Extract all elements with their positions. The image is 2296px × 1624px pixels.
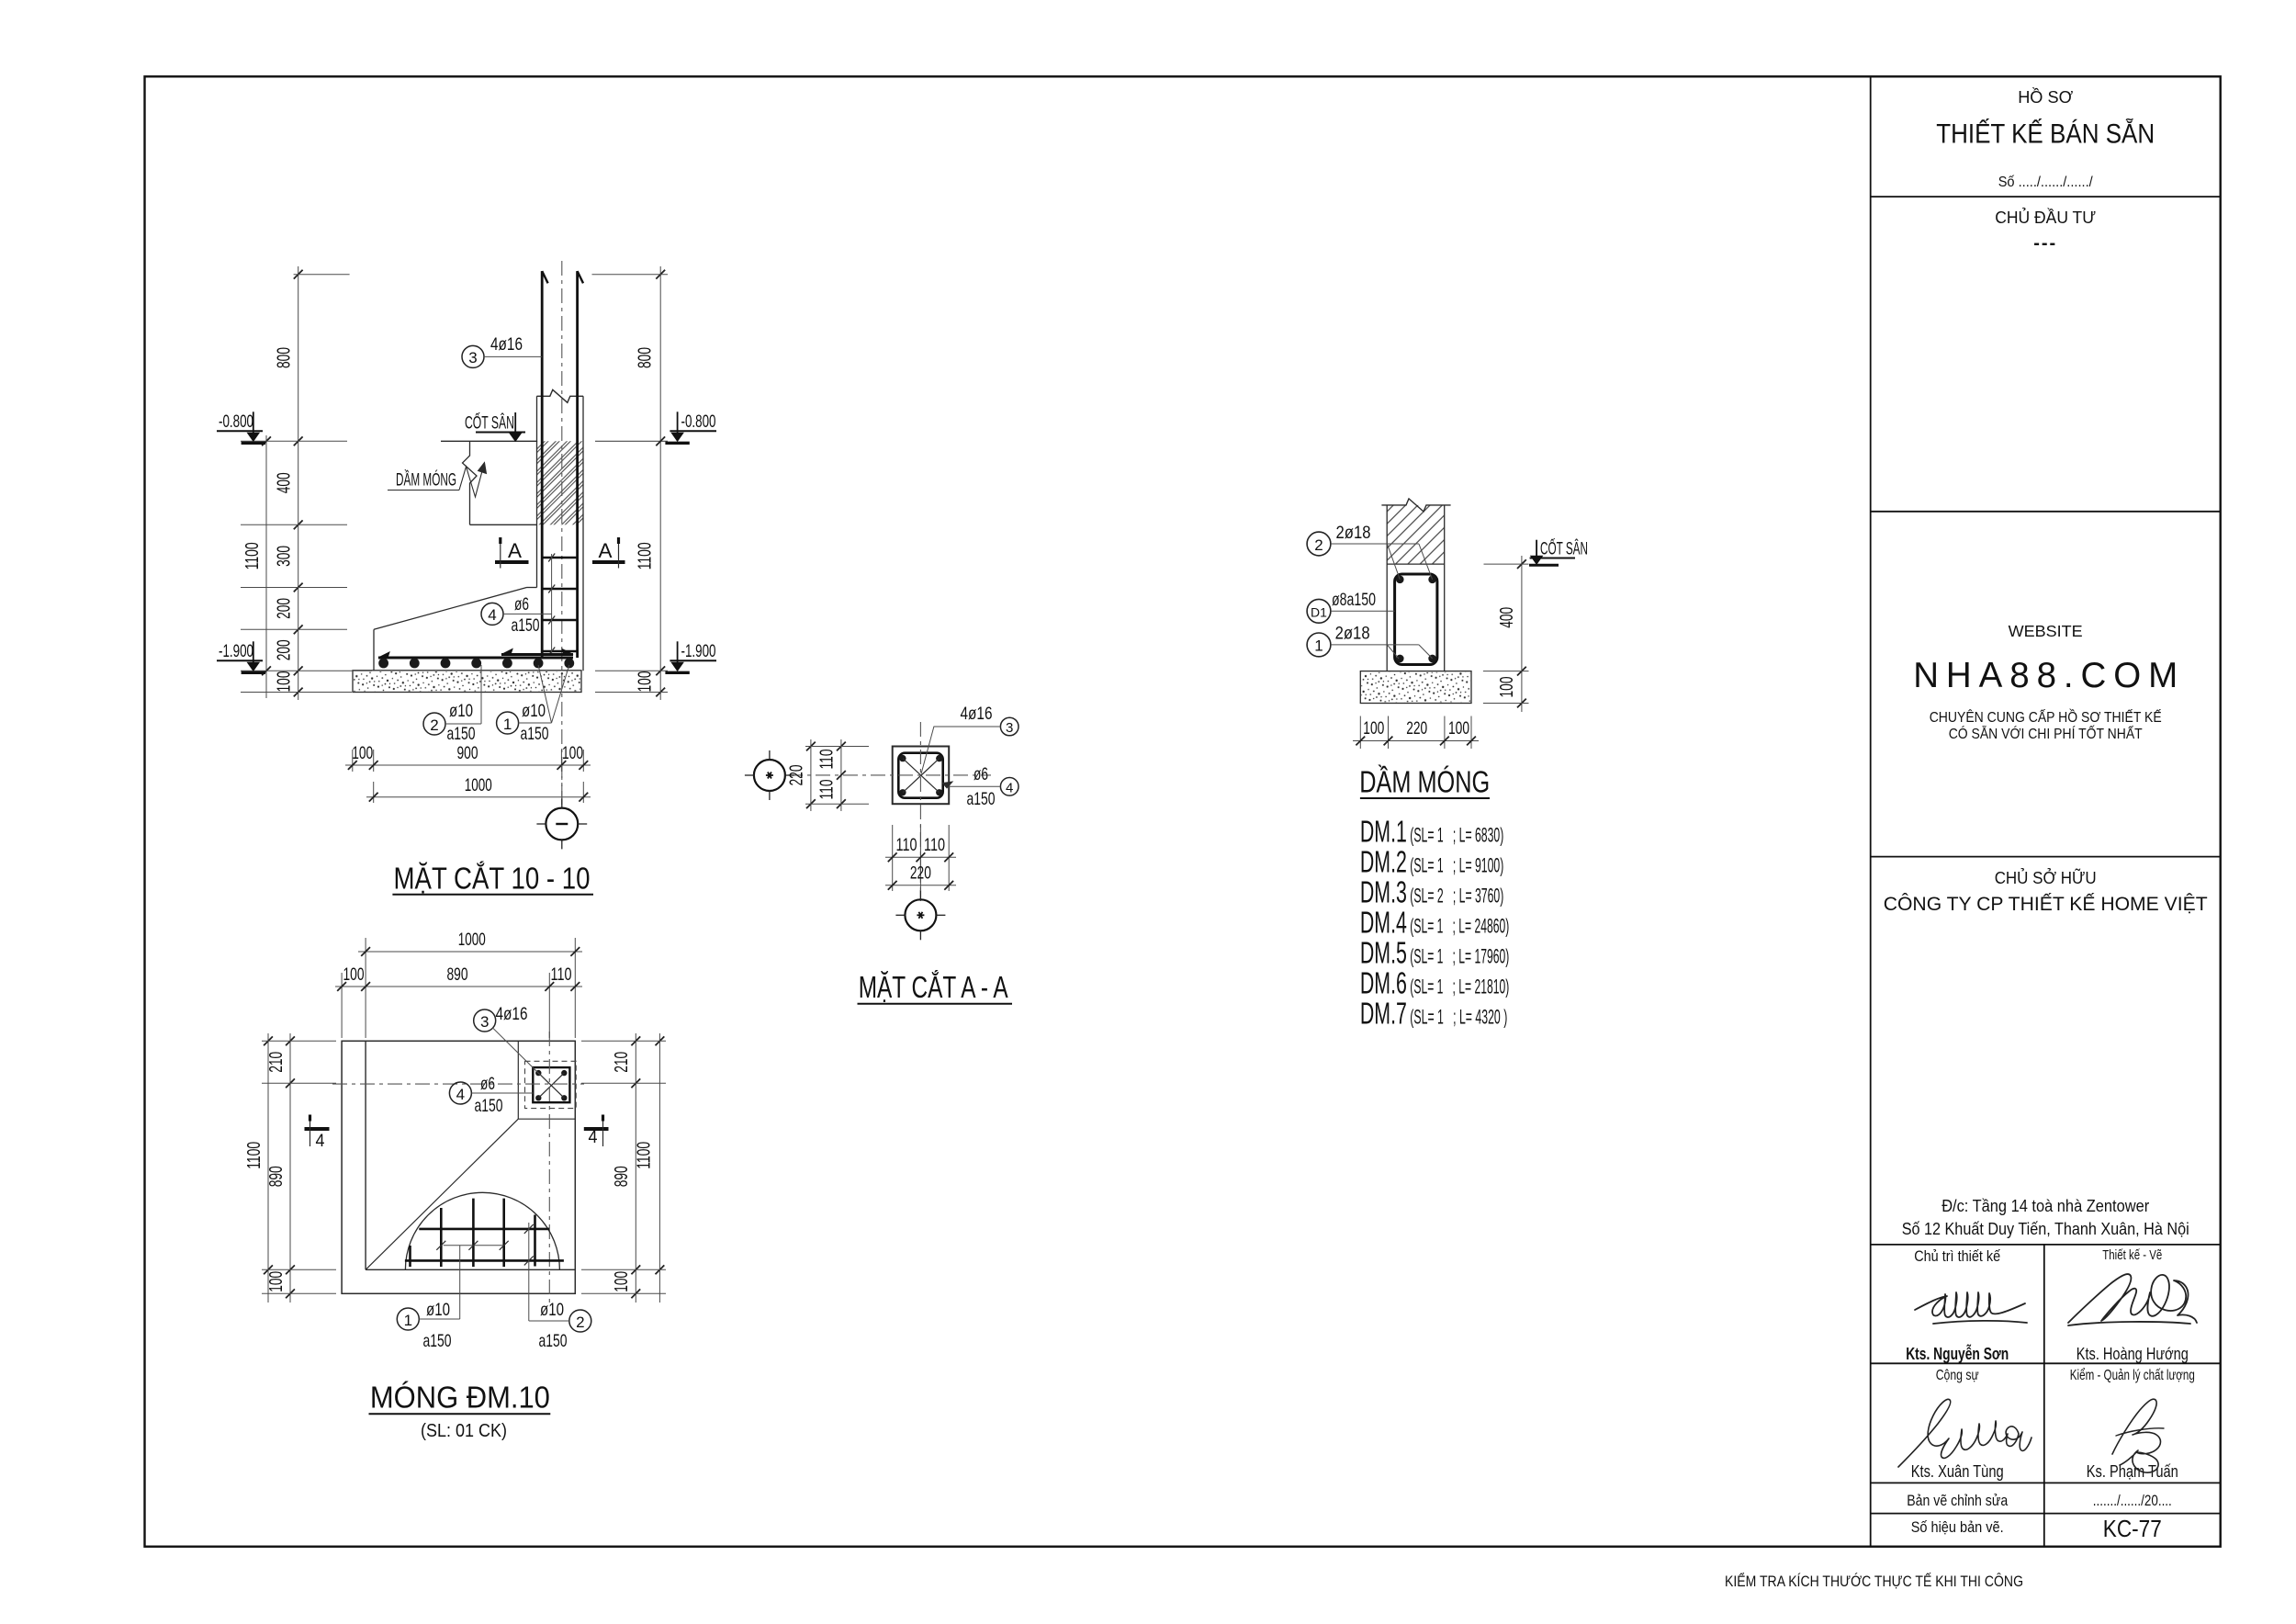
svg-text:CÓ SẴN VỚI CHI PHÍ TỐT NHẤT: CÓ SẴN VỚI CHI PHÍ TỐT NHẤT: [1949, 726, 2143, 742]
svg-text:890: 890: [447, 964, 468, 985]
svg-text:NHA88.COM: NHA88.COM: [1913, 656, 2178, 695]
svg-text:2: 2: [1314, 536, 1322, 554]
svg-text:Đ/c: Tầng 14 toà nhà Zentower: Đ/c: Tầng 14 toà nhà Zentower: [1941, 1197, 2149, 1215]
svg-text:-0.800: -0.800: [681, 412, 716, 432]
svg-text:......./....../20....: ......./....../20....: [2093, 1493, 2172, 1509]
svg-text:a150: a150: [521, 724, 549, 744]
svg-text:1: 1: [503, 716, 512, 733]
svg-text:Số 12 Khuất Duy Tiến, Thanh Xu: Số 12 Khuất Duy Tiến, Thanh Xuân, Hà Nội: [1902, 1220, 2189, 1238]
svg-text:ø8a150: ø8a150: [1332, 590, 1376, 610]
svg-text:1000: 1000: [458, 930, 486, 950]
svg-text:THIẾT KẾ BÁN SẴN: THIẾT KẾ BÁN SẴN: [1936, 118, 2155, 150]
svg-text:(SL= 1 ; L= 9100): (SL= 1 ; L= 9100): [1410, 854, 1503, 877]
svg-text:ø10: ø10: [540, 1300, 564, 1320]
svg-text:(SL= 1 ; L= 17960): (SL= 1 ; L= 17960): [1410, 945, 1509, 968]
svg-text:CHUYÊN CUNG CẤP HỒ SƠ THIẾT KẾ: CHUYÊN CUNG CẤP HỒ SƠ THIẾT KẾ: [1930, 709, 2162, 726]
svg-text:-1.900: -1.900: [681, 642, 716, 661]
svg-text:(SL= 2 ; L= 3760): (SL= 2 ; L= 3760): [1410, 885, 1503, 908]
svg-text:220: 220: [1406, 718, 1427, 739]
svg-text:ø6: ø6: [974, 764, 988, 784]
svg-text:Cộng sự: Cộng sự: [1936, 1368, 1979, 1383]
svg-text:3: 3: [480, 1013, 489, 1031]
svg-text:(SL: 01 CK): (SL: 01 CK): [421, 1421, 507, 1441]
svg-text:DẦM MÓNG: DẦM MÓNG: [396, 469, 456, 491]
svg-text:890: 890: [266, 1166, 287, 1187]
svg-text:2: 2: [576, 1314, 584, 1331]
svg-text:Số ...../....../....../: Số ...../....../....../: [1998, 175, 2094, 190]
svg-text:4ø16: 4ø16: [496, 1004, 528, 1024]
svg-text:Số hiệu bản vẽ.: Số hiệu bản vẽ.: [1911, 1518, 2004, 1536]
svg-text:Ks. Phạm Tuấn: Ks. Phạm Tuấn: [2087, 1462, 2178, 1481]
svg-text:DM.2: DM.2: [1360, 846, 1407, 880]
svg-text:DM.6: DM.6: [1360, 967, 1407, 1001]
svg-text:-1.900: -1.900: [219, 642, 253, 661]
svg-text:4: 4: [1006, 780, 1013, 795]
svg-text:Kiểm - Quản lý chất lượng: Kiểm - Quản lý chất lượng: [2070, 1368, 2195, 1383]
svg-text:DM.4: DM.4: [1360, 907, 1407, 941]
svg-text:ø10: ø10: [522, 701, 546, 721]
svg-text:DM.3: DM.3: [1360, 876, 1407, 910]
svg-text:1100: 1100: [635, 1142, 655, 1169]
svg-text:100: 100: [1363, 718, 1384, 739]
svg-text:100: 100: [343, 964, 365, 985]
svg-text:Bản vẽ chỉnh sửa: Bản vẽ chỉnh sửa: [1907, 1493, 2009, 1509]
svg-text:3: 3: [468, 349, 477, 367]
svg-text:4: 4: [456, 1086, 465, 1103]
svg-text:220: 220: [787, 765, 807, 786]
svg-text:4: 4: [488, 606, 496, 624]
svg-text:A: A: [599, 539, 613, 562]
svg-text:200: 200: [275, 639, 295, 660]
svg-text:HỒ SƠ: HỒ SƠ: [2018, 87, 2073, 107]
svg-text:110: 110: [896, 835, 917, 855]
svg-text:Kts. Xuân Tùng: Kts. Xuân Tùng: [1911, 1462, 2004, 1481]
svg-text:ø6: ø6: [480, 1074, 495, 1094]
svg-text:A: A: [508, 539, 522, 562]
svg-text:Chủ trì thiết kế: Chủ trì thiết kế: [1914, 1248, 2000, 1265]
svg-text:100: 100: [275, 671, 295, 693]
svg-text:110: 110: [817, 780, 838, 800]
svg-text:100: 100: [1497, 677, 1517, 698]
svg-text:a150: a150: [539, 1331, 568, 1351]
svg-text:400: 400: [275, 472, 295, 493]
svg-text:3: 3: [1006, 720, 1013, 736]
svg-text:ø6: ø6: [514, 594, 529, 615]
svg-text:ø10: ø10: [449, 701, 473, 721]
svg-text:220: 220: [910, 863, 931, 884]
svg-text:Thiết kế - Vẽ: Thiết kế - Vẽ: [2102, 1247, 2162, 1263]
svg-text:1: 1: [404, 1312, 412, 1329]
svg-text:a150: a150: [423, 1331, 452, 1351]
svg-text:Kts. Nguyễn Sơn: Kts. Nguyễn Sơn: [1906, 1344, 2009, 1363]
svg-text:a150: a150: [447, 724, 476, 744]
svg-text:DM.5: DM.5: [1360, 937, 1407, 971]
svg-text:2: 2: [430, 716, 438, 734]
svg-text:WEBSITE: WEBSITE: [2009, 622, 2083, 640]
svg-text:(SL= 1 ; L= 6830): (SL= 1 ; L= 6830): [1410, 824, 1503, 847]
svg-text:200: 200: [275, 598, 295, 619]
svg-text:a150: a150: [475, 1096, 503, 1116]
svg-text:MÓNG ĐM.10: MÓNG ĐM.10: [370, 1381, 550, 1415]
svg-text:100: 100: [562, 743, 583, 763]
svg-text:CÔNG TY CP THIẾT KẾ HOME VIỆT: CÔNG TY CP THIẾT KẾ HOME VIỆT: [1884, 892, 2208, 915]
svg-text:DM.7: DM.7: [1360, 998, 1407, 1032]
svg-text:900: 900: [457, 743, 478, 763]
svg-text:MẶT CẮT 10 - 10: MẶT CẮT 10 - 10: [394, 862, 591, 897]
svg-text:KIỂM TRA KÍCH THƯỚC THỰC TẾ KH: KIỂM TRA KÍCH THƯỚC THỰC TẾ KHI THI CÔNG: [1725, 1573, 2023, 1590]
svg-text:D1: D1: [1311, 605, 1327, 620]
svg-text:CHỦ ĐẦU TƯ: CHỦ ĐẦU TƯ: [1995, 208, 2096, 227]
svg-text:CỐT SÂN: CỐT SÂN: [465, 412, 514, 434]
svg-text:210: 210: [266, 1052, 287, 1073]
svg-text:100: 100: [1448, 718, 1469, 739]
svg-text:4: 4: [589, 1128, 598, 1147]
svg-text:110: 110: [924, 835, 945, 855]
svg-text:110: 110: [817, 750, 838, 770]
svg-text:---: ---: [2033, 233, 2057, 254]
svg-text:800: 800: [636, 347, 656, 368]
svg-text:100: 100: [266, 1271, 287, 1292]
svg-text:CHỦ SỞ HỮU: CHỦ SỞ HỮU: [1995, 868, 2097, 887]
svg-text:(SL= 1 ; L= 4320 ): (SL= 1 ; L= 4320 ): [1410, 1006, 1507, 1029]
svg-text:a150: a150: [967, 789, 996, 809]
svg-text:Kts. Hoàng Hướng: Kts. Hoàng Hướng: [2077, 1345, 2189, 1363]
svg-text:a150: a150: [512, 615, 540, 636]
svg-text:1100: 1100: [242, 542, 263, 570]
svg-text:2ø18: 2ø18: [1336, 523, 1371, 543]
svg-text:-0.800: -0.800: [219, 412, 253, 432]
svg-text:(SL= 1 ; L= 21810): (SL= 1 ; L= 21810): [1410, 976, 1509, 998]
svg-text:4ø16: 4ø16: [490, 334, 523, 355]
svg-text:1000: 1000: [465, 775, 492, 795]
svg-text:KC-77: KC-77: [2103, 1515, 2162, 1542]
svg-text:1100: 1100: [636, 542, 656, 570]
svg-text:(SL= 1 ; L= 24860): (SL= 1 ; L= 24860): [1410, 915, 1509, 938]
svg-text:300: 300: [275, 546, 295, 567]
svg-text:DM.1: DM.1: [1360, 816, 1407, 850]
svg-text:210: 210: [612, 1052, 632, 1073]
svg-text:110: 110: [551, 964, 572, 985]
svg-text:ø10: ø10: [426, 1300, 450, 1320]
svg-text:1100: 1100: [244, 1142, 264, 1169]
svg-text:1: 1: [1314, 637, 1322, 655]
svg-text:2ø18: 2ø18: [1335, 624, 1370, 644]
svg-text:4: 4: [316, 1132, 325, 1151]
svg-text:MẶT CẮT A - A: MẶT CẮT A - A: [859, 970, 1008, 1005]
svg-text:CỐT SÂN: CỐT SÂN: [1540, 537, 1588, 559]
svg-text:100: 100: [352, 743, 373, 763]
svg-text:400: 400: [1497, 607, 1517, 628]
svg-text:890: 890: [612, 1166, 632, 1187]
svg-text:4ø16: 4ø16: [961, 704, 993, 724]
svg-text:100: 100: [636, 671, 656, 693]
svg-text:100: 100: [612, 1271, 632, 1292]
svg-text:DẦM MÓNG: DẦM MÓNG: [1359, 764, 1490, 799]
svg-text:800: 800: [275, 347, 295, 368]
